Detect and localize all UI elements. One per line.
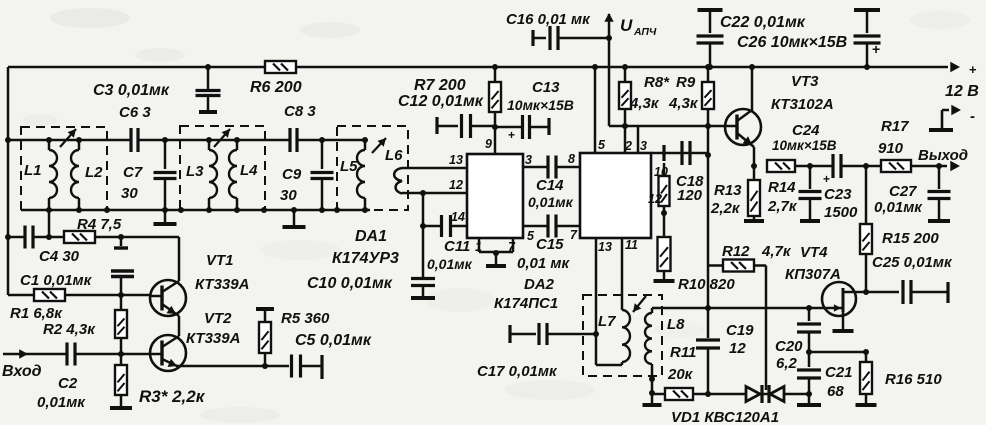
svg-text:+: + — [823, 172, 830, 186]
svg-text:L4: L4 — [240, 162, 258, 179]
capacitor C10 — [411, 279, 435, 286]
capacitor C21 — [808, 352, 811, 367]
svg-text:2: 2 — [624, 139, 632, 153]
wire: DA1 pin 14 / capacitor C11 — [423, 225, 440, 228]
svg-text:1: 1 — [475, 240, 482, 254]
inductor L8 — [651, 308, 654, 313]
capacitor C17 — [508, 325, 511, 343]
svg-text:C5 0,01мк: C5 0,01мк — [295, 332, 372, 349]
svg-text:C25 0,01мк: C25 0,01мк — [872, 254, 953, 271]
svg-text:C15: C15 — [536, 236, 564, 253]
svg-text:C24: C24 — [792, 122, 820, 139]
svg-text:20к: 20к — [667, 366, 694, 383]
svg-text:1500: 1500 — [824, 204, 858, 221]
capacitor C25 — [866, 291, 899, 294]
wire: DA2 pin 11 down — [621, 238, 624, 310]
svg-text:C3 0,01мк: C3 0,01мк — [93, 82, 170, 99]
svg-text:7: 7 — [508, 240, 516, 254]
wire: DA1 pins 1,7 to ground — [478, 238, 481, 252]
transistor VT4 KP307A (FET) — [822, 282, 856, 316]
wire: oscillator vertical x708 — [707, 266, 710, 309]
svg-text:C11: C11 — [444, 238, 470, 255]
transistor VT2 KT339A — [150, 335, 186, 371]
resistor R14 — [767, 160, 795, 172]
resistor R5 — [262, 363, 268, 369]
svg-text:C7: C7 — [123, 164, 143, 181]
svg-text:C6 3: C6 3 — [119, 104, 151, 121]
svg-text:14: 14 — [451, 210, 465, 224]
wire: oscillator top row — [652, 307, 809, 310]
svg-text:120: 120 — [677, 187, 703, 204]
capacitor C6 — [131, 128, 138, 152]
svg-text:C14: C14 — [536, 177, 564, 194]
svg-text:C17 0,01мк: C17 0,01мк — [477, 363, 558, 380]
svg-text:68: 68 — [827, 383, 844, 400]
svg-text:4,3к: 4,3к — [629, 95, 660, 112]
capacitor C4 — [8, 236, 25, 239]
svg-text:+: + — [508, 128, 515, 142]
wire: AFC line to DA2 pin 2 — [609, 125, 707, 128]
wire: tank tap to C4/R4 node — [48, 210, 51, 237]
wire: DA1 pin 9 / resistor R7 — [492, 64, 498, 70]
wire: VT1 emitter to VT2 collector — [178, 316, 181, 336]
svg-text:C4 30: C4 30 — [39, 248, 80, 265]
svg-text:9: 9 — [485, 137, 492, 151]
wire: L6 to DA1 pin 13 — [402, 167, 467, 170]
capacitor C23 — [809, 166, 812, 189]
wire: L7 bottom to pin 13 — [596, 364, 622, 367]
capacitor C2 — [67, 343, 75, 366]
svg-text:C21: C21 — [825, 364, 853, 381]
svg-text:Вход: Вход — [2, 363, 42, 380]
capacitor C7 — [162, 137, 168, 143]
svg-text:R1 6,8к: R1 6,8к — [10, 305, 63, 322]
wire: R11 to varicap — [693, 393, 746, 396]
shield box 3 (L5 L6) — [337, 126, 408, 210]
wire: top +12V supply bus (left segment) — [8, 66, 265, 69]
svg-text:2,2к: 2,2к — [710, 200, 741, 217]
wire: DA2 pin 13 down — [595, 238, 598, 365]
svg-text:C2: C2 — [58, 375, 78, 392]
svg-text:C23: C23 — [824, 186, 852, 203]
wire: R1 to VT1 base — [65, 294, 150, 297]
svg-text:DA1: DA1 — [355, 228, 387, 245]
svg-text:DA2: DA2 — [524, 276, 555, 293]
capacitor C20 — [808, 308, 811, 321]
resistor R15 — [865, 166, 868, 224]
capacitor C13 (electrolytic) — [495, 126, 522, 129]
capacitor C27 — [938, 166, 941, 189]
capacitor C1 — [118, 234, 124, 240]
svg-text:R10 820: R10 820 — [678, 276, 735, 293]
svg-text:0,01мк: 0,01мк — [37, 394, 86, 411]
capacitor C5 — [265, 365, 289, 368]
inductor L4 — [234, 137, 240, 143]
capacitor C8 — [290, 128, 297, 152]
wire: filter top rail right — [297, 139, 365, 142]
capacitor C19 — [707, 308, 710, 338]
AFC output U_APCH — [606, 35, 612, 41]
svg-text:0,01мк: 0,01мк — [874, 199, 923, 216]
svg-text:R2 4,3к: R2 4,3к — [43, 321, 96, 338]
svg-text:R14: R14 — [768, 179, 796, 196]
svg-text:910: 910 — [878, 140, 904, 157]
inductor L5 — [362, 137, 368, 143]
capacitor C22 — [698, 8, 723, 12]
node: rail / C4 wire — [5, 234, 11, 240]
svg-text:R11: R11 — [670, 344, 696, 361]
svg-text:L6: L6 — [385, 147, 403, 164]
wire: varicap to C21 node — [784, 393, 809, 396]
resistor R11 — [665, 388, 693, 400]
resistor R3 — [120, 354, 123, 365]
svg-text:L8: L8 — [667, 316, 685, 333]
wire: top +12V supply bus (right segment) — [296, 66, 948, 69]
resistor R9 — [705, 64, 711, 70]
svg-text:5: 5 — [598, 138, 606, 152]
svg-text:+: + — [872, 41, 880, 57]
trimmer arrow L7 — [633, 296, 646, 312]
wire: DA2 pin 3 stub — [637, 126, 640, 153]
transistor VT1 KT339A — [150, 280, 186, 316]
wire: C24 to R17 — [841, 165, 881, 168]
node: rail / filter top wire — [5, 137, 11, 143]
inductor L7 — [622, 310, 630, 362]
svg-text:R4 7,5: R4 7,5 — [77, 216, 122, 233]
wire: C2 to VT2 base — [76, 353, 150, 356]
ground under L8 — [651, 394, 654, 403]
shield box 1 (L1 L2) — [21, 127, 107, 210]
svg-text:3: 3 — [640, 139, 647, 153]
svg-text:К174ПС1: К174ПС1 — [494, 295, 558, 312]
svg-text:10мк×15В: 10мк×15В — [772, 138, 837, 153]
resistor at DA2 pin 12 — [663, 163, 666, 176]
svg-text:VT2: VT2 — [204, 310, 232, 327]
output wire with arrow — [911, 165, 947, 168]
svg-text:R5 360: R5 360 — [281, 310, 330, 327]
svg-text:L3: L3 — [186, 163, 204, 180]
svg-text:12: 12 — [648, 192, 662, 206]
svg-text:4,3к: 4,3к — [668, 95, 699, 112]
svg-text:R15 200: R15 200 — [882, 230, 939, 247]
resistor R2 — [120, 295, 123, 310]
svg-text:VT3: VT3 — [791, 73, 819, 90]
svg-text:13: 13 — [598, 240, 612, 254]
wire: VT2 emitter line — [176, 365, 265, 368]
svg-text:R3* 2,2к: R3* 2,2к — [139, 387, 206, 406]
svg-text:R12: R12 — [722, 243, 750, 260]
wire: L6 to DA1 pin 12 — [402, 192, 467, 195]
svg-text:R13: R13 — [714, 182, 742, 199]
wire: DA1 pin 3 / capacitor C14 — [523, 166, 548, 169]
svg-text:C22 0,01мк: C22 0,01мк — [720, 14, 806, 31]
wire: DA2 pin 5 from bus — [592, 64, 598, 70]
wire: R12 to varicap midpoint — [765, 266, 768, 391]
wire: R9/VT3 base vertical — [707, 126, 710, 266]
svg-text:R9: R9 — [676, 74, 696, 91]
svg-text:-: - — [970, 108, 975, 125]
svg-text:C1 0,01мк: C1 0,01мк — [20, 272, 93, 289]
svg-text:C8 3: C8 3 — [284, 103, 316, 120]
capacitor C3 — [205, 64, 211, 70]
svg-text:5: 5 — [527, 229, 535, 243]
resistor R1 — [8, 294, 34, 297]
resistor R16 — [865, 352, 868, 362]
resistor R8 — [622, 64, 628, 70]
capacitor C26 (electrolytic) — [854, 8, 880, 12]
svg-text:7: 7 — [570, 228, 578, 242]
svg-text:+: + — [969, 62, 977, 77]
trimmer arrow L5/L6 — [372, 138, 386, 153]
wire: VT3 collector to bus — [749, 64, 755, 70]
wire: VT3 emitter down — [753, 147, 756, 166]
resistor R4 — [46, 234, 52, 240]
svg-text:12 В: 12 В — [945, 83, 979, 100]
trimmer arrow L3/L4 — [214, 129, 230, 147]
supply return terminal — [942, 109, 949, 112]
svg-text:C19: C19 — [726, 322, 754, 339]
svg-text:10мк×15В: 10мк×15В — [507, 97, 574, 113]
ground under C7 — [164, 210, 167, 222]
ground under C21 chain — [808, 394, 811, 403]
wire: filter bottom rail — [21, 209, 370, 212]
svg-text:КТ339А: КТ339А — [186, 330, 240, 347]
svg-text:L2: L2 — [85, 164, 103, 181]
svg-text:R16 510: R16 510 — [885, 371, 942, 388]
shield box 2 (L3 L4) — [180, 126, 265, 210]
svg-text:30: 30 — [121, 185, 138, 202]
resistor R13 — [753, 166, 756, 180]
svg-text:VT1: VT1 — [206, 252, 234, 269]
wire: filter top rail mid — [138, 139, 290, 142]
svg-text:4,7к: 4,7к — [761, 243, 792, 260]
wire: emitter row — [795, 165, 833, 168]
svg-text:К174УР3: К174УР3 — [332, 250, 399, 267]
svg-text:6,2: 6,2 — [776, 355, 798, 372]
svg-text:R17: R17 — [881, 118, 909, 135]
svg-text:КТ339А: КТ339А — [195, 276, 249, 293]
svg-text:АПЧ: АПЧ — [633, 26, 657, 38]
input arrow — [3, 353, 67, 356]
svg-text:2,7к: 2,7к — [767, 198, 798, 215]
resistor R10 — [658, 237, 671, 271]
svg-text:C16 0,01 мк: C16 0,01 мк — [506, 11, 591, 28]
wire: filter top rail — [8, 139, 131, 142]
svg-text:VD1 КВС120А1: VD1 КВС120А1 — [671, 409, 779, 425]
varicap VD1 KVS120A1 — [746, 387, 760, 402]
wire: DA2 pin 10 / capacitor C18 — [651, 152, 708, 155]
node: box2 bottom — [178, 207, 184, 213]
wire: L6 bottom node down to C10 — [422, 193, 425, 278]
svg-text:C9: C9 — [282, 166, 302, 183]
wire: C20/R16 link — [809, 351, 866, 354]
svg-text:Выход: Выход — [918, 147, 968, 164]
capacitor C16 — [531, 30, 534, 46]
svg-text:C20: C20 — [775, 338, 803, 355]
svg-text:L5: L5 — [340, 158, 358, 175]
resistor R12 — [708, 264, 723, 267]
svg-text:8: 8 — [568, 152, 575, 166]
svg-text:12: 12 — [729, 340, 746, 357]
resistor R17 — [881, 160, 911, 172]
svg-text:C13: C13 — [532, 79, 560, 96]
transistor VT3 KT3102A — [725, 109, 761, 145]
inductor L2 — [76, 137, 82, 143]
svg-text:VT4: VT4 — [800, 244, 828, 261]
capacitor C24 (electrolytic) — [833, 154, 841, 178]
svg-text:R6 200: R6 200 — [250, 79, 302, 96]
svg-text:R8*: R8* — [644, 74, 670, 91]
resistor R6 — [265, 61, 296, 73]
supply arrow +12 V — [950, 62, 960, 72]
svg-text:30: 30 — [280, 187, 297, 204]
svg-text:R7 200: R7 200 — [414, 77, 466, 94]
ground stub mid filter — [291, 207, 297, 213]
svg-text:L7: L7 — [598, 313, 616, 330]
svg-text:0,01мк: 0,01мк — [427, 256, 473, 272]
svg-text:L1: L1 — [24, 162, 42, 179]
svg-text:13: 13 — [449, 153, 463, 167]
svg-text:11: 11 — [625, 238, 638, 252]
svg-text:0,01мк: 0,01мк — [528, 194, 574, 210]
svg-text:КТ3102А: КТ3102А — [771, 96, 834, 113]
capacitor C9 — [319, 137, 325, 143]
inductor L6 — [394, 168, 402, 194]
svg-text:C27: C27 — [889, 183, 917, 200]
svg-text:КП307А: КП307А — [785, 266, 841, 283]
wire: DA1 pin 5 / capacitor C15 — [523, 225, 548, 228]
capacitor C12 — [435, 117, 438, 134]
trimmer arrow L1/L2 — [60, 129, 76, 147]
svg-text:12: 12 — [449, 178, 463, 192]
wire: R4 to VT1 collector — [95, 236, 179, 239]
svg-text:U: U — [620, 16, 633, 35]
svg-text:C26 10мк×15В: C26 10мк×15В — [737, 34, 847, 51]
inductor L1 — [46, 137, 52, 143]
svg-text:C10 0,01мк: C10 0,01мк — [307, 275, 393, 292]
IC DA1 K174UR3 — [467, 154, 523, 238]
svg-text:3: 3 — [525, 153, 532, 167]
svg-text:0,01 мк: 0,01 мк — [517, 255, 570, 272]
wire: left input rail — [7, 67, 10, 295]
inductor L3 — [206, 137, 212, 143]
IC DA2 K174PS1 — [580, 153, 651, 238]
shield box (L7 L8) — [583, 295, 662, 376]
svg-text:C12 0,01мк: C12 0,01мк — [398, 93, 484, 110]
